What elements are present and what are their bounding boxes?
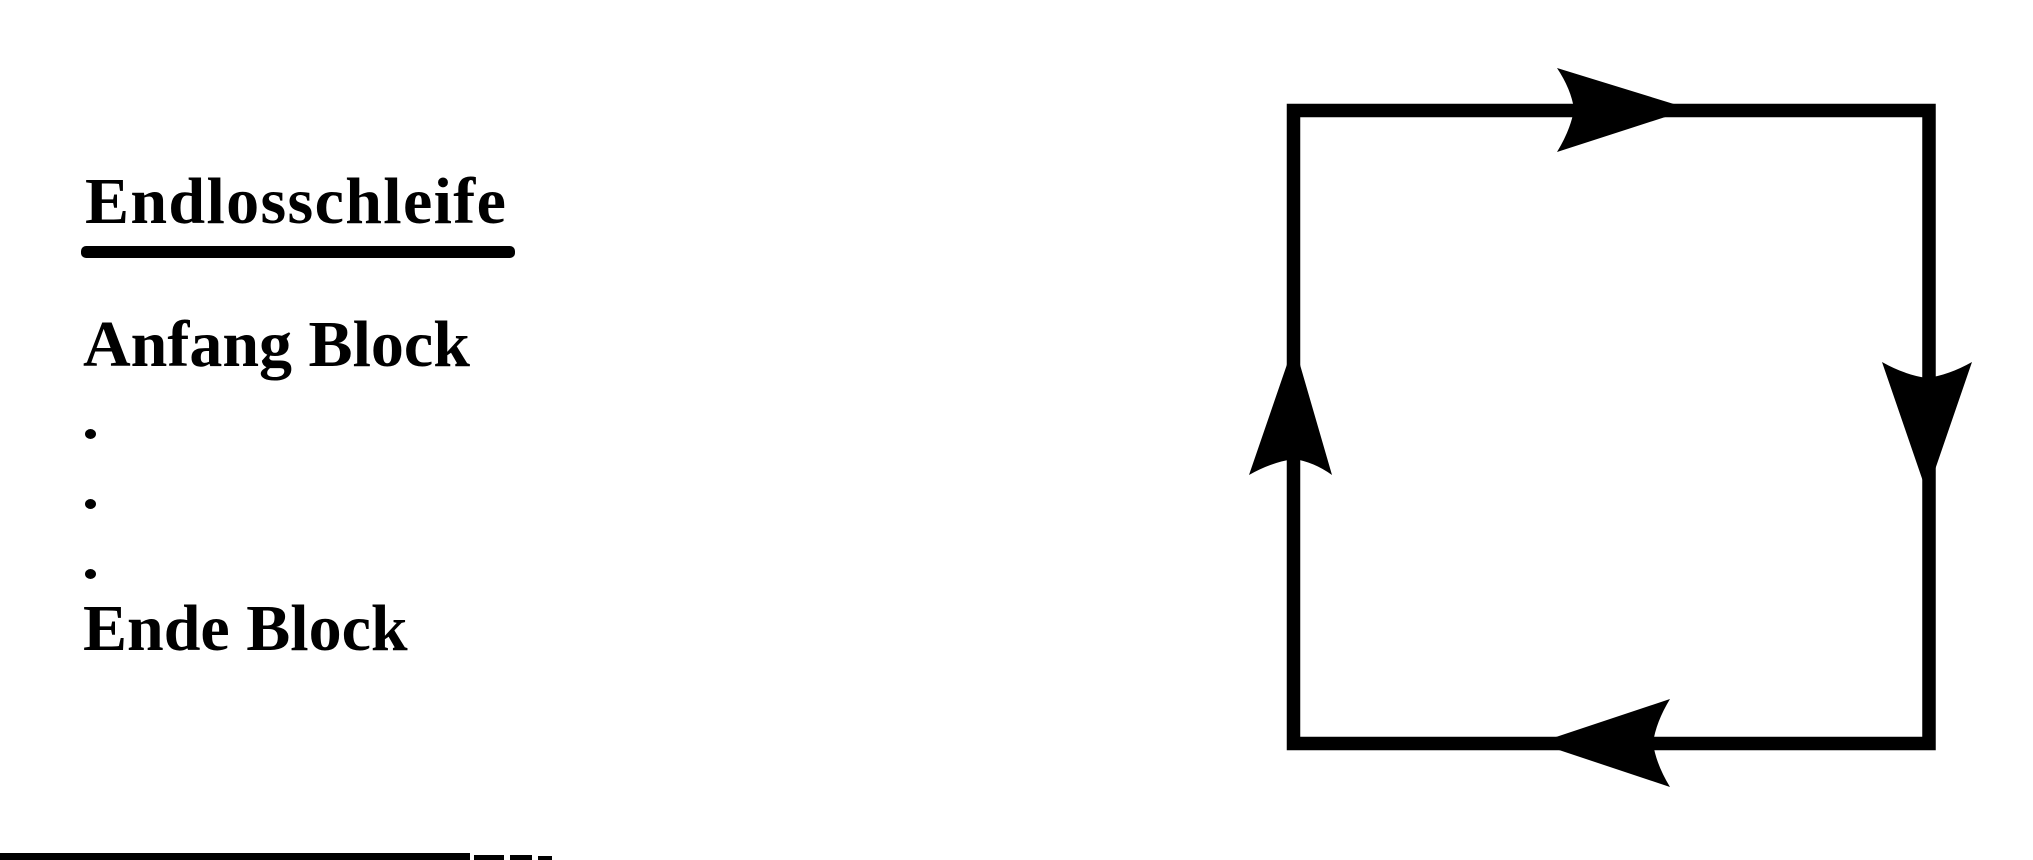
ellipsis dot 2 xyxy=(85,499,96,509)
arrowhead pointing left (bottom edge) xyxy=(1538,699,1670,787)
bottom page rule (partial) xyxy=(0,853,470,860)
arrowhead pointing right (top edge) xyxy=(1557,68,1690,152)
label "Anfang Block" xyxy=(83,312,470,378)
label "Ende Block" xyxy=(83,596,408,662)
ellipsis dot 1 xyxy=(85,429,96,439)
bottom page rule dashes xyxy=(474,855,504,860)
arrowhead pointing up (left edge) xyxy=(1249,344,1332,475)
ellipsis dot 3 xyxy=(85,569,96,579)
title underline rule xyxy=(81,246,515,258)
label "Endlosschleife" (title) xyxy=(85,169,507,235)
loop square (wire path) xyxy=(1294,111,1930,744)
arrowhead pointing down (right edge) xyxy=(1882,362,1972,493)
